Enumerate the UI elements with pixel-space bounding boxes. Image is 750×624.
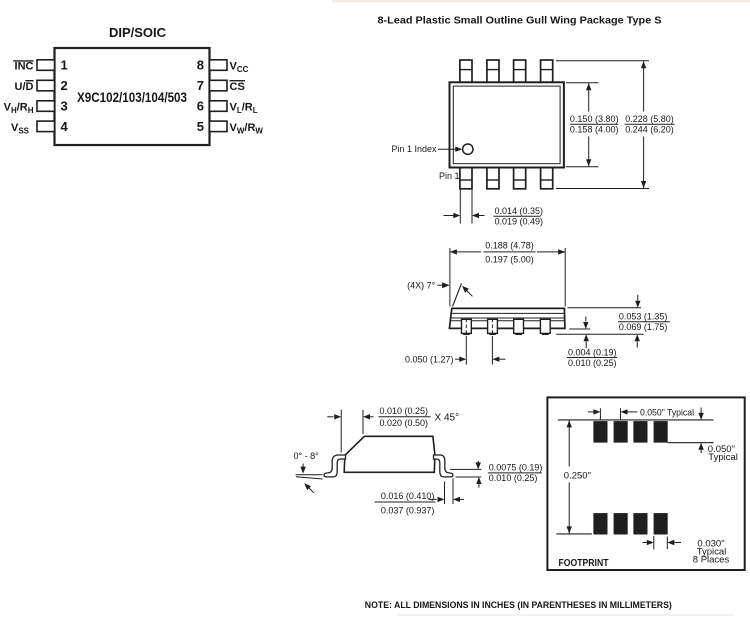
lead pitch centerlines (dashed): [465, 319, 467, 339]
overall height lower arrow: [635, 334, 640, 341]
row spacing dimension 0.250 inch: [568, 420, 570, 466]
side view lead 3: [514, 319, 524, 333]
dimension 0.150/0.158 arrow line: [588, 83, 590, 111]
svg-text:0.014 (0.35): 0.014 (0.35): [495, 206, 544, 216]
end view package body: [344, 436, 435, 472]
svg-text:0.020 (0.50): 0.020 (0.50): [380, 418, 429, 428]
footprint top pad 1: [593, 421, 607, 443]
svg-text:2: 2: [61, 78, 68, 93]
footprint top pad 3: [633, 421, 647, 443]
lead angle wedge lines: [296, 474, 323, 476]
standoff upper arrow: [585, 317, 587, 322]
pad width arrows: [643, 542, 647, 544]
svg-text:7: 7: [197, 78, 204, 93]
7 deg leader arrow: [467, 291, 473, 297]
7 deg draft angle indicator line: [453, 284, 462, 307]
side view lead 2: [488, 319, 498, 333]
svg-text:0.010 (0.25): 0.010 (0.25): [568, 358, 617, 368]
pad length lower arrow: [698, 443, 703, 450]
svg-text:0.197 (5.00): 0.197 (5.00): [485, 255, 534, 265]
pad pitch arrows: [588, 411, 594, 413]
standoff lower arrow: [584, 334, 589, 341]
pad length upper arrow: [700, 408, 702, 413]
top view lower lead 3: [514, 168, 526, 189]
pad pitch dimension ticks: [599, 408, 601, 420]
footprint bottom pad 3: [633, 513, 647, 534]
svg-text:X9C102/103/104/503: X9C102/103/104/503: [77, 89, 187, 105]
footprint top pad 4: [654, 421, 668, 443]
pin 8 stub (right): [210, 60, 228, 71]
svg-text:0.019 (0.49): 0.019 (0.49): [495, 217, 544, 227]
footprint bottom pad 4: [654, 513, 668, 534]
svg-text:8-Lead Plastic Small Outline G: 8-Lead Plastic Small Outline Gull Wing P…: [378, 15, 662, 27]
pad width dimension ticks: [653, 536, 655, 549]
faint clipped header band at top: [332, 0, 750, 2]
top view upper lead 1: [460, 60, 472, 82]
svg-text:6: 6: [197, 99, 204, 114]
svg-text:0.158 (4.00): 0.158 (4.00): [570, 125, 619, 135]
pin 2 stub (left): [37, 80, 55, 91]
svg-text:(4X) 7°: (4X) 7°: [407, 281, 436, 291]
side view lead 1: [462, 319, 472, 333]
svg-text:0.244 (6.20): 0.244 (6.20): [625, 125, 674, 135]
svg-text:X 45°: X 45°: [435, 413, 460, 424]
end view left gull-wing lead: [324, 455, 346, 477]
dimension 0.188/0.197 extension lines: [449, 248, 451, 307]
lead width dimension arrows: [444, 215, 454, 217]
dimension 0.188/0.197 arrow line: [450, 251, 481, 253]
svg-text:Typical: Typical: [708, 452, 738, 463]
top view upper lead 4: [541, 60, 553, 82]
top view lower lead 4: [541, 168, 553, 189]
pin 4 stub (left): [37, 121, 55, 132]
svg-text:0.250": 0.250": [564, 470, 591, 481]
footprint bottom pad 2: [614, 513, 628, 534]
dimension 0.228/0.244 arrow line: [643, 61, 645, 111]
lead width dimension extension lines: [459, 190, 461, 224]
svg-text:0.037 (0.937): 0.037 (0.937): [381, 506, 435, 516]
overall height upper arrow: [637, 295, 639, 301]
svg-text:Pin 1: Pin 1: [439, 171, 460, 181]
svg-text:0.016 (0.410): 0.016 (0.410): [381, 491, 435, 501]
footprint top gauge line: [558, 419, 714, 421]
svg-text:0.050 (1.27): 0.050 (1.27): [405, 354, 454, 364]
footprint top-row lower gauge line: [668, 442, 714, 444]
standoff body-bottom extension line: [569, 328, 590, 330]
footprint frame: [547, 397, 744, 570]
top view lower lead 1: [460, 168, 472, 189]
top view package body outline: [450, 82, 564, 167]
svg-text:CS: CS: [230, 81, 245, 93]
svg-text:3: 3: [61, 99, 68, 114]
dimension 0.228/0.244 extension lines: [556, 60, 649, 62]
side view lead 4: [540, 319, 550, 333]
faint footer rule under note: [397, 614, 733, 616]
svg-text:0.0075 (0.19): 0.0075 (0.19): [489, 462, 543, 472]
svg-text:0.053 (1.35): 0.053 (1.35): [619, 312, 668, 322]
footprint bottom gauge line: [556, 533, 592, 535]
svg-text:0.188 (4.78): 0.188 (4.78): [485, 241, 534, 251]
top view package body inner line: [453, 86, 560, 164]
svg-text:DIP/SOIC: DIP/SOIC: [109, 25, 167, 40]
chamfer dimension extension lines: [340, 410, 342, 453]
end view right gull-wing lead: [434, 455, 454, 477]
top view upper lead 3: [514, 60, 526, 82]
svg-text:0.004 (0.19): 0.004 (0.19): [568, 347, 617, 357]
svg-text:0.228 (5.80): 0.228 (5.80): [625, 114, 674, 124]
pin 1 stub (left): [37, 60, 55, 71]
svg-text:U/D: U/D: [15, 81, 34, 93]
overall height extension line: [568, 307, 642, 309]
svg-text:0.050" Typical: 0.050" Typical: [640, 408, 694, 419]
svg-text:5: 5: [197, 119, 204, 134]
svg-text:0.069 (1.75): 0.069 (1.75): [619, 322, 668, 332]
side view body parting lines: [450, 312, 564, 314]
svg-text:1: 1: [61, 58, 68, 73]
pin 7 stub (right): [210, 80, 228, 91]
foot length extension lines: [444, 482, 446, 505]
svg-text:NOTE: ALL DIMENSIONS IN INCHES: NOTE: ALL DIMENSIONS IN INCHES (IN PAREN…: [365, 600, 672, 611]
top view lower lead 2: [487, 168, 499, 189]
side view package body: [449, 308, 565, 328]
lead angle diagonal arrow: [308, 487, 314, 493]
footprint bottom pad 1: [593, 513, 607, 534]
foot length arrows: [429, 498, 437, 500]
svg-text:8: 8: [197, 58, 204, 73]
svg-text:0° - 8°: 0° - 8°: [294, 451, 320, 461]
lead thickness extension lines: [450, 468, 481, 470]
lead angle down arrow: [302, 464, 304, 468]
footprint top pad 2: [614, 421, 628, 443]
svg-text:0.150 (3.80): 0.150 (3.80): [570, 114, 619, 124]
top view upper lead 2: [487, 60, 499, 82]
pin 1 index circle: [463, 144, 473, 154]
pinout IC body X9C102/103/104/503: [55, 48, 210, 145]
chamfer dimension arrows: [327, 416, 333, 418]
svg-text:0.010 (0.25): 0.010 (0.25): [489, 473, 538, 483]
lead thickness arrows: [477, 461, 479, 463]
svg-text:FOOTPRINT: FOOTPRINT: [559, 557, 609, 569]
svg-text:4: 4: [61, 119, 69, 134]
seating plane line: [556, 333, 643, 335]
pin 6 stub (right): [210, 101, 228, 112]
svg-text:8 Places: 8 Places: [693, 555, 730, 566]
pin 3 stub (left): [37, 101, 55, 112]
pin 5 stub (right): [210, 121, 228, 132]
dimension 0.150/0.158 extension lines: [566, 82, 599, 84]
svg-text:Pin 1 Index: Pin 1 Index: [391, 144, 437, 154]
svg-text:INC: INC: [15, 61, 34, 73]
svg-text:0.010 (0.25): 0.010 (0.25): [380, 406, 429, 416]
